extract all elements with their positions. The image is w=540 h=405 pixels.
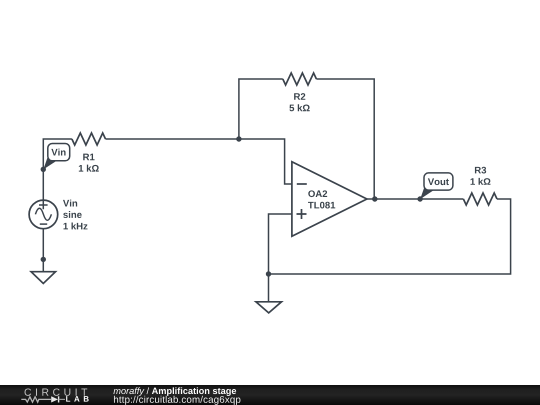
wire R3 down and back to ground node: [269, 199, 511, 274]
voltage source value label 1 kHz: [64, 222, 88, 229]
voltage source minus sign: [40, 223, 47, 225]
wire op-amp output to R3: [367, 198, 464, 200]
node Vin label anchor dot: [41, 167, 46, 172]
wire feedback branch up to R2: [239, 79, 283, 139]
node Vout flag box: [424, 173, 453, 190]
wire source-top to R1: [43, 139, 72, 200]
wire R2 down to output node: [316, 79, 374, 199]
voltage source sine squiggle: [35, 208, 51, 220]
node Vout flag text: [428, 178, 449, 185]
wire source-bottom to ground: [42, 229, 44, 271]
op-amp inverting pin minus sign: [297, 183, 307, 185]
footer url text: [114, 396, 240, 405]
op-amp part label TL081: [308, 202, 335, 209]
node output junction dot: [372, 196, 377, 201]
resistor R2 value label: [289, 104, 309, 111]
node Vout flag pointer: [420, 187, 433, 199]
wire op-amp non-inverting input to ground: [269, 214, 292, 302]
node non-inverting ground junction dot: [266, 271, 271, 276]
resistor R2 body: [283, 73, 317, 85]
logo text LAB: [66, 396, 89, 402]
footer bar: [0, 385, 540, 405]
logo diode triangle: [51, 396, 58, 402]
logo resistor squiggle: [21, 397, 51, 402]
node Vin flag text: [51, 149, 65, 156]
logo text CIRCUIT: [25, 388, 88, 395]
node feedback branch junction dot: [236, 136, 241, 141]
resistor R3 value label: [471, 178, 491, 185]
voltage source plus sign: [39, 201, 48, 210]
voltage source type label sine: [63, 211, 81, 218]
resistor R1 value label: [79, 165, 99, 172]
ground under source: [31, 272, 55, 284]
op-amp non-inverting pin plus sign: [297, 209, 307, 219]
op-amp name label OA2: [308, 190, 327, 197]
node Vin flag box: [48, 144, 70, 161]
op-amp OA2 triangle: [292, 162, 367, 237]
resistor R1 body: [72, 133, 106, 145]
voltage source name label Vin: [63, 200, 77, 207]
logo wire after diode: [59, 398, 65, 400]
resistor R1 name label: [83, 154, 94, 161]
node Vin flag pointer: [43, 158, 56, 169]
wire R1 to op-amp inverting input: [106, 139, 292, 184]
node source-ground junction dot: [41, 257, 46, 262]
node Vout label anchor dot: [417, 196, 422, 201]
resistor R2 name label: [294, 93, 305, 100]
footer author/title text: [113, 387, 236, 396]
resistor R3 body: [463, 193, 497, 205]
logo diode bar: [58, 396, 60, 402]
resistor R3 name label: [475, 167, 486, 174]
voltage source V1 circle: [29, 200, 58, 229]
ground under op-amp non-inverting input: [256, 302, 282, 313]
